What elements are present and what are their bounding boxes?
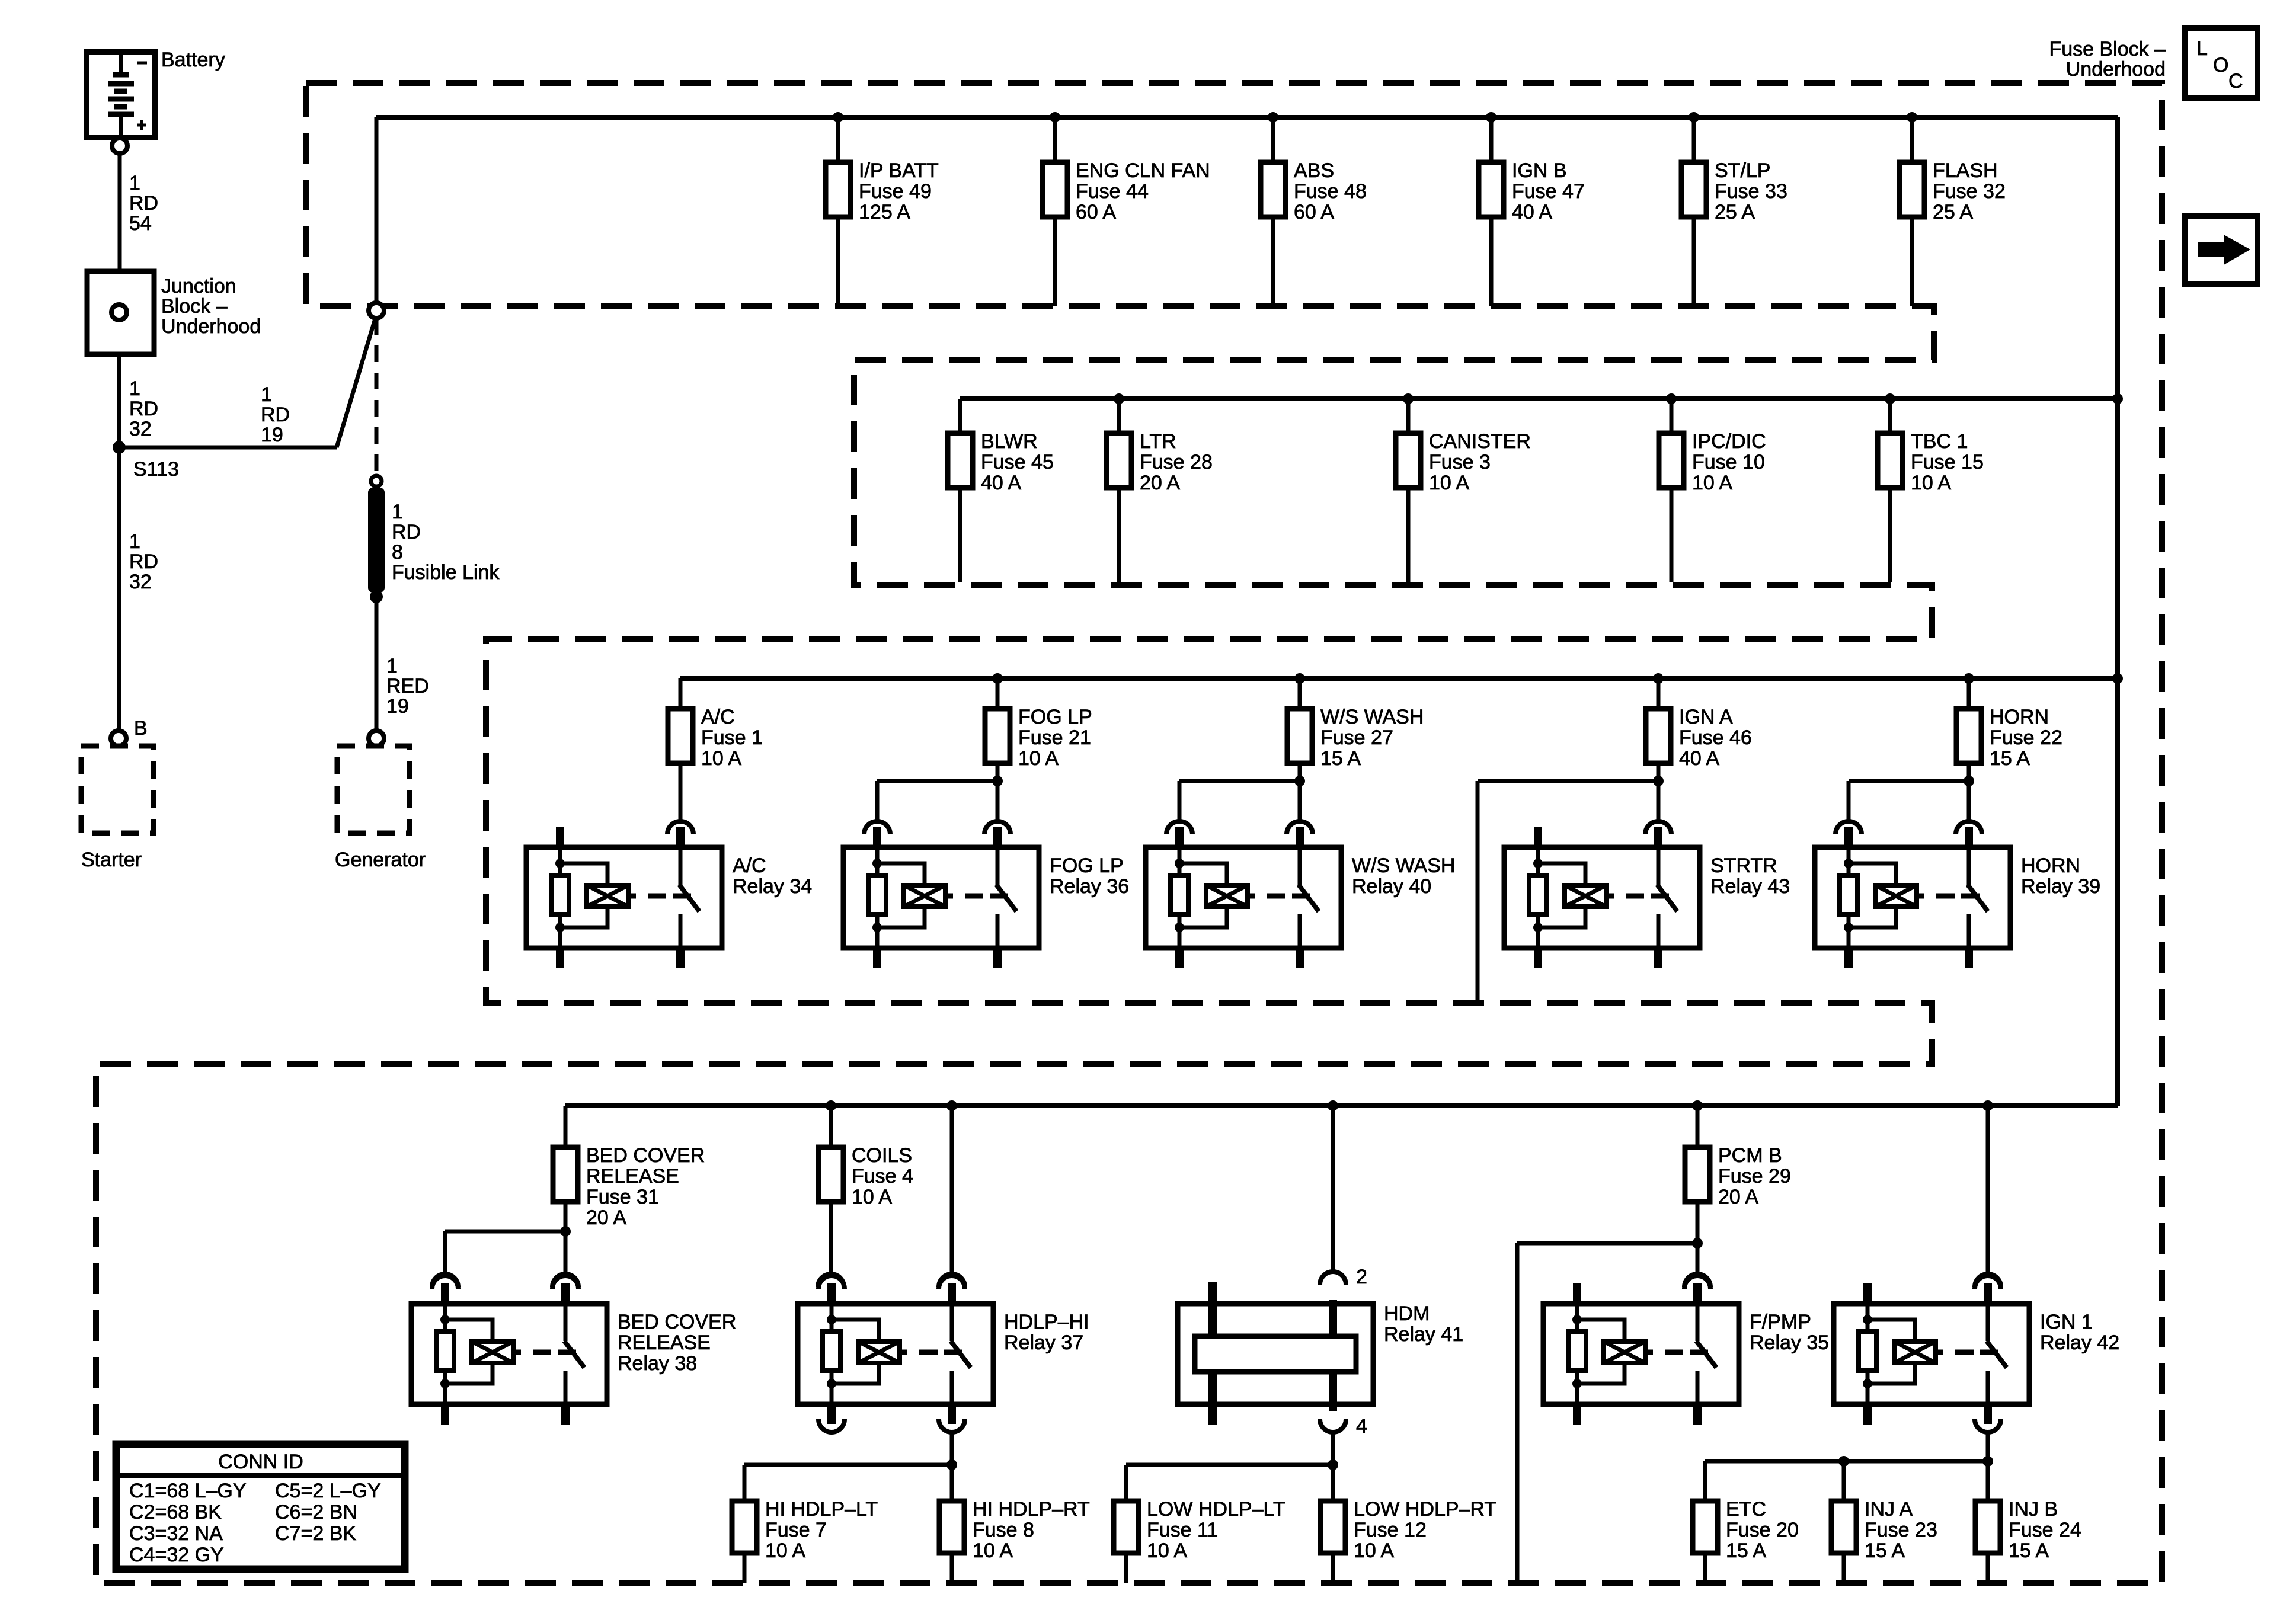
wire to fuse F8: [950, 1465, 954, 1501]
relay HDM Relay 41: [1178, 1282, 1463, 1438]
node bus2 F15: [1885, 393, 1895, 404]
svg-text:Fuse 47: Fuse 47: [1512, 180, 1585, 203]
svg-text:C2=68 BK: C2=68 BK: [129, 1501, 222, 1523]
svg-text:1: 1: [129, 172, 140, 194]
wire jog to fuse F11: [1126, 1463, 1333, 1467]
svg-text:40 A: 40 A: [981, 472, 1021, 494]
svg-text:CONN ID: CONN ID: [218, 1451, 303, 1473]
wire to fuse F24: [1986, 1461, 1990, 1501]
fuse F20: [1693, 1498, 1799, 1562]
svg-text:1: 1: [129, 530, 140, 553]
svg-text:32: 32: [129, 418, 152, 440]
svg-text:C6=2 BN: C6=2 BN: [275, 1501, 357, 1523]
svg-text:Fuse 32: Fuse 32: [1933, 180, 2006, 203]
svg-text:FOG LP: FOG LP: [1050, 854, 1124, 877]
svg-text:Fuse 11: Fuse 11: [1147, 1519, 1218, 1541]
svg-text:INJ A: INJ A: [1865, 1498, 1913, 1521]
LOC reference box: [2185, 28, 2257, 98]
fuse F32: [1900, 159, 2006, 223]
wire fuse F11 output: [1124, 1553, 1128, 1583]
node bus4 F29: [1692, 1100, 1703, 1111]
wire battery to junction block: [118, 153, 122, 271]
splice at fusible link bottom: [370, 590, 383, 603]
fuse F45: [948, 430, 1054, 494]
wire bus1 to fuse F48: [1271, 117, 1275, 162]
svg-text:Relay 43: Relay 43: [1710, 875, 1790, 898]
wire bus2 to fuse F15: [1888, 399, 1892, 433]
svg-text:Underhood: Underhood: [2066, 58, 2166, 81]
fuse F11: [1114, 1498, 1285, 1562]
svg-text:Fuse 15: Fuse 15: [1911, 451, 1984, 473]
bus row 2: [960, 396, 2118, 401]
fuse F31: [553, 1144, 705, 1229]
svg-text:BLWR: BLWR: [981, 430, 1038, 453]
wire F46 jog down to boundary: [1478, 779, 1658, 783]
svg-text:COILS: COILS: [852, 1144, 912, 1167]
svg-text:Fuse 10: Fuse 10: [1692, 451, 1765, 473]
svg-text:25 A: 25 A: [1933, 201, 1973, 223]
svg-text:Relay 37: Relay 37: [1004, 1331, 1083, 1354]
svg-text:RED: RED: [386, 675, 429, 697]
svg-text:1: 1: [392, 501, 403, 523]
wire fuse F48 output: [1271, 217, 1275, 306]
node bus1 F44: [1050, 112, 1060, 123]
node bus4 HDM: [1328, 1100, 1338, 1111]
node bus2 F3: [1403, 393, 1414, 404]
svg-text:1: 1: [386, 655, 398, 677]
svg-text:LOW HDLP–RT: LOW HDLP–RT: [1354, 1498, 1496, 1521]
node bus1 F48: [1268, 112, 1278, 123]
svg-text:10 A: 10 A: [701, 747, 741, 770]
svg-text:BED COVER: BED COVER: [586, 1144, 705, 1167]
svg-text:RD: RD: [392, 521, 421, 543]
wire relay37 switch output splice: [950, 1432, 954, 1465]
svg-text:20 A: 20 A: [586, 1206, 626, 1229]
wire bus4 to fuse F31: [564, 1106, 568, 1147]
node bus3 F22: [1964, 673, 1974, 684]
svg-text:15 A: 15 A: [1726, 1539, 1766, 1562]
svg-text:C1=68 L–GY: C1=68 L–GY: [129, 1480, 247, 1502]
wire S113 to fuse block node: [119, 446, 337, 450]
bus INJ: [1705, 1459, 1988, 1464]
svg-text:60 A: 60 A: [1294, 201, 1334, 223]
svg-text:RD: RD: [129, 398, 158, 420]
fuse F24: [1975, 1498, 2081, 1562]
wire to fuse F23: [1842, 1461, 1846, 1501]
dashed wire node to fusible link: [375, 318, 379, 474]
fuse F46: [1646, 706, 1752, 770]
fuse F1: [668, 706, 763, 770]
svg-text:Fuse 20: Fuse 20: [1726, 1519, 1799, 1541]
generator terminal: [369, 731, 384, 746]
wire to fuse F12: [1331, 1465, 1335, 1501]
node bus3-main: [2112, 673, 2123, 684]
relay HDLP-HI Relay 37: [798, 1276, 1089, 1432]
fuse F23: [1831, 1498, 1937, 1562]
svg-text:RELEASE: RELEASE: [618, 1331, 711, 1354]
node junction at boundary: [369, 303, 384, 318]
wire bus1 to fuse F47: [1489, 117, 1494, 162]
wire bus2 left drop: [958, 399, 962, 433]
splice S113: [113, 441, 126, 454]
svg-text:Block –: Block –: [161, 295, 228, 318]
relay STRTR Relay 43: [1504, 827, 1790, 968]
svg-text:1: 1: [261, 383, 272, 406]
svg-text:IGN B: IGN B: [1512, 159, 1567, 182]
svg-text:Fuse 12: Fuse 12: [1354, 1519, 1427, 1541]
svg-text:IGN A: IGN A: [1679, 706, 1733, 728]
wire bus1 to fuse F32: [1910, 117, 1914, 162]
wire bus4 to relay37 switch: [950, 1106, 954, 1274]
svg-text:C: C: [2228, 70, 2243, 92]
svg-text:Relay 34: Relay 34: [733, 875, 812, 898]
fuse F8: [939, 1498, 1090, 1562]
svg-text:Fuse 7: Fuse 7: [765, 1519, 827, 1541]
wire bus1 to fuse F33: [1692, 117, 1696, 162]
wire fuse F8 output: [950, 1553, 954, 1583]
svg-text:Fuse 8: Fuse 8: [973, 1519, 1034, 1541]
svg-text:LOW HDLP–LT: LOW HDLP–LT: [1147, 1498, 1285, 1521]
node bus4 relay37: [946, 1100, 957, 1111]
svg-text:PCM B: PCM B: [1718, 1144, 1782, 1167]
svg-text:1: 1: [129, 377, 140, 400]
wire fuse F47 output: [1489, 217, 1494, 306]
svg-text:HI HDLP–RT: HI HDLP–RT: [973, 1498, 1090, 1521]
svg-text:F/PMP: F/PMP: [1750, 1311, 1811, 1333]
svg-text:CANISTER: CANISTER: [1429, 430, 1531, 453]
node bus2-main: [2112, 393, 2123, 404]
svg-text:Fuse 49: Fuse 49: [859, 180, 932, 203]
relay BED COVER RELEASE Relay 38: [411, 1276, 736, 1425]
node bus1 F47: [1486, 112, 1496, 123]
wire F31 jog to relay38 coil: [445, 1230, 565, 1234]
svg-text:15 A: 15 A: [1320, 747, 1361, 770]
svg-text:TBC 1: TBC 1: [1911, 430, 1968, 453]
svg-text:A/C: A/C: [733, 854, 766, 877]
wire bus4 to relay42 switch: [1986, 1106, 1990, 1274]
bus row 4: [565, 1103, 2118, 1108]
wire node to bus 1: [375, 117, 379, 303]
fuse F21: [985, 706, 1092, 770]
fuse F47: [1479, 159, 1585, 223]
svg-text:32: 32: [129, 571, 152, 593]
wire bus2 to fuse F3: [1406, 399, 1411, 433]
svg-text:Fuse 21: Fuse 21: [1018, 726, 1091, 749]
svg-text:Fuse 22: Fuse 22: [1990, 726, 2062, 749]
svg-text:Fuse 33: Fuse 33: [1715, 180, 1787, 203]
svg-text:10 A: 10 A: [1354, 1539, 1394, 1562]
junction block - underhood: [87, 271, 261, 354]
svg-text:IPC/DIC: IPC/DIC: [1692, 430, 1766, 453]
wire fuse F15 output: [1888, 488, 1892, 582]
svg-text:Fuse 31: Fuse 31: [586, 1186, 659, 1208]
relay IGN 1 Relay 42: [1834, 1276, 2119, 1432]
node bus2 F10: [1666, 393, 1677, 404]
fuse F49: [826, 159, 939, 223]
wire bus1 to fuse F44: [1053, 117, 1057, 162]
svg-text:Relay 35: Relay 35: [1750, 1331, 1829, 1354]
wire bus1 to fuse F49: [836, 117, 840, 162]
wire fuse F21 splice: [996, 763, 1000, 781]
node bus1 F32: [1907, 112, 1917, 123]
svg-text:8: 8: [392, 541, 403, 564]
wire fuse F1 to relay 34: [679, 763, 683, 821]
wire bus3 to fuse F22: [1967, 678, 1971, 709]
svg-text:Fuse 4: Fuse 4: [852, 1165, 913, 1188]
svg-text:54: 54: [129, 212, 152, 235]
node bus1 F49: [833, 112, 843, 123]
wire F29 to relay35 switch: [1696, 1243, 1700, 1274]
svg-text:C5=2 L–GY: C5=2 L–GY: [275, 1480, 381, 1502]
wire bus3 to fuse F21: [996, 678, 1000, 709]
node bus2 F28: [1114, 393, 1124, 404]
svg-text:4: 4: [1356, 1415, 1367, 1438]
svg-text:10 A: 10 A: [765, 1539, 805, 1562]
svg-text:Fuse 27: Fuse 27: [1320, 726, 1393, 749]
svg-text:Fuse 45: Fuse 45: [981, 451, 1054, 473]
node INJ B: [1982, 1456, 1993, 1467]
fusible link: [368, 476, 500, 593]
fuse F10: [1659, 430, 1766, 494]
svg-text:20 A: 20 A: [1140, 472, 1180, 494]
svg-text:10 A: 10 A: [1018, 747, 1059, 770]
svg-text:Battery: Battery: [161, 49, 225, 71]
svg-text:FOG LP: FOG LP: [1018, 706, 1092, 728]
svg-text:INJ B: INJ B: [2009, 1498, 2058, 1521]
svg-text:C4=32 GY: C4=32 GY: [129, 1544, 224, 1566]
fuse F27: [1287, 706, 1424, 770]
svg-text:Junction: Junction: [161, 275, 236, 297]
relay FOG LP Relay 36: [843, 827, 1129, 968]
svg-text:Fuse 24: Fuse 24: [2009, 1519, 2081, 1541]
svg-text:19: 19: [386, 695, 409, 718]
wire fuse F28 output: [1117, 488, 1121, 582]
fuse F15: [1878, 430, 1984, 494]
svg-text:40 A: 40 A: [1679, 747, 1719, 770]
wire fuse F32 output: [1910, 217, 1914, 306]
svg-text:BED COVER: BED COVER: [618, 1311, 736, 1333]
svg-text:Underhood: Underhood: [161, 315, 261, 338]
svg-text:Starter: Starter: [81, 849, 142, 871]
wire F31 to relay38 switch: [564, 1231, 568, 1274]
svg-text:Fuse 23: Fuse 23: [1865, 1519, 1937, 1541]
fuse F44: [1043, 159, 1210, 223]
svg-text:20 A: 20 A: [1718, 1186, 1758, 1208]
svg-text:O: O: [2213, 54, 2228, 76]
svg-text:HORN: HORN: [1990, 706, 2049, 728]
fuse F28: [1107, 430, 1213, 494]
fuse F4: [818, 1144, 913, 1208]
wire fuse F12 output: [1331, 1553, 1335, 1583]
svg-text:Generator: Generator: [335, 849, 426, 871]
svg-text:25 A: 25 A: [1715, 201, 1755, 223]
svg-text:HDLP–HI: HDLP–HI: [1004, 1311, 1089, 1333]
wire fuse F23 output: [1842, 1553, 1846, 1583]
svg-text:HORN: HORN: [2021, 854, 2080, 877]
wire F21 to relay36 switch: [996, 781, 1000, 821]
fuse F22: [1956, 706, 2062, 770]
wire fuse F44 output: [1053, 217, 1057, 306]
wire F29 splice: [1696, 1202, 1700, 1243]
svg-text:S113: S113: [133, 458, 179, 481]
wire fuse F10 output: [1670, 488, 1674, 582]
svg-text:RD: RD: [129, 192, 158, 215]
wire bus2 to fuse F10: [1670, 399, 1674, 433]
wire fuse F45 output: [958, 488, 962, 582]
svg-text:HI HDLP–LT: HI HDLP–LT: [765, 1498, 878, 1521]
wire fuse F20 output: [1703, 1553, 1707, 1583]
svg-text:A/C: A/C: [701, 706, 735, 728]
svg-text:W/S WASH: W/S WASH: [1352, 854, 1455, 877]
bus row 3: [680, 676, 2118, 681]
svg-text:Relay 36: Relay 36: [1050, 875, 1129, 898]
svg-text:10 A: 10 A: [1911, 472, 1951, 494]
fuse F12: [1320, 1498, 1496, 1562]
svg-text:40 A: 40 A: [1512, 201, 1552, 223]
svg-text:C7=2 BK: C7=2 BK: [275, 1522, 356, 1545]
fuse F7: [732, 1498, 878, 1562]
svg-text:10 A: 10 A: [1692, 472, 1732, 494]
wire fuse F7 output: [743, 1553, 747, 1583]
svg-text:Relay 41: Relay 41: [1384, 1323, 1463, 1346]
svg-text:10 A: 10 A: [1429, 472, 1469, 494]
wire fuse F24 output: [1986, 1553, 1990, 1583]
continuation arrow box: [2185, 216, 2257, 284]
svg-text:10 A: 10 A: [852, 1186, 892, 1208]
fuse F48: [1261, 159, 1367, 223]
wire jog to fuse F7: [744, 1463, 952, 1467]
relay A/C Relay 34: [526, 827, 812, 968]
svg-text:Relay 42: Relay 42: [2040, 1331, 2119, 1354]
wire F31 splice: [564, 1202, 568, 1231]
node bus3 F21: [992, 673, 1003, 684]
wire fuse F46 splice: [1657, 763, 1661, 781]
svg-text:125 A: 125 A: [859, 201, 910, 223]
wire F27 jog to relay40 coil: [1179, 779, 1300, 783]
wire fuse F33 output: [1692, 217, 1696, 306]
wire bus3 to fuse F46: [1657, 678, 1661, 709]
wire fuse F22 splice: [1967, 763, 1971, 781]
svg-text:IGN 1: IGN 1: [2040, 1311, 2093, 1333]
svg-text:W/S WASH: W/S WASH: [1320, 706, 1424, 728]
svg-text:10 A: 10 A: [1147, 1539, 1187, 1562]
wire F22 jog to relay39 coil: [1849, 779, 1969, 783]
svg-text:2: 2: [1356, 1266, 1367, 1288]
starter terminal B: [111, 731, 126, 746]
bus row 1: [376, 115, 2118, 120]
fuse F29: [1685, 1144, 1791, 1208]
wire bus3 to fuse F27: [1298, 678, 1302, 709]
svg-text:Fuse 48: Fuse 48: [1294, 180, 1367, 203]
svg-text:Fuse 28: Fuse 28: [1140, 451, 1213, 473]
node bus3 F27: [1294, 673, 1305, 684]
wire fusible link to generator: [375, 597, 379, 731]
wire fuse F3 output: [1406, 488, 1411, 582]
wire S113 to starter: [117, 447, 121, 731]
svg-text:FLASH: FLASH: [1933, 159, 1998, 182]
wire F27 to relay40 switch: [1298, 781, 1302, 821]
svg-text:Relay 38: Relay 38: [618, 1352, 697, 1375]
relay F/PMP Relay 35: [1543, 1276, 1829, 1425]
fuse F33: [1681, 159, 1787, 223]
wire to fuse F20: [1703, 1461, 1707, 1501]
wire F22 to relay39 switch: [1967, 781, 1971, 821]
wire F21 jog to relay36 coil: [877, 779, 997, 783]
svg-text:C3=32 NA: C3=32 NA: [129, 1522, 223, 1545]
wire junction block to S113: [117, 354, 121, 447]
svg-text:15 A: 15 A: [2009, 1539, 2049, 1562]
relay HORN Relay 39: [1815, 827, 2100, 968]
svg-text:I/P BATT: I/P BATT: [859, 159, 939, 182]
battery positive terminal: [112, 138, 127, 153]
svg-text:15 A: 15 A: [1990, 747, 2030, 770]
wire jog down to boundary: [1515, 1243, 1520, 1583]
wire bus4 to F4: [829, 1106, 833, 1147]
wire bus3 left drop: [679, 678, 683, 709]
svg-text:B: B: [134, 717, 148, 740]
wire F46 to relay43 switch: [1657, 781, 1661, 821]
wire relay42 switch output: [1986, 1432, 1990, 1461]
svg-text:STRTR: STRTR: [1710, 854, 1777, 877]
svg-text:Fuse 1: Fuse 1: [701, 726, 763, 749]
svg-text:L: L: [2196, 37, 2208, 60]
fuse F3: [1396, 430, 1531, 494]
node INJ A: [1838, 1456, 1849, 1467]
svg-text:ABS: ABS: [1294, 159, 1334, 182]
svg-text:ETC: ETC: [1726, 1498, 1766, 1521]
svg-text:RELEASE: RELEASE: [586, 1165, 679, 1188]
svg-text:RD: RD: [129, 550, 158, 573]
svg-text:Fuse Block –: Fuse Block –: [2049, 38, 2166, 60]
node bus3 F46: [1653, 673, 1664, 684]
wire fuse F49 output: [836, 217, 840, 306]
svg-text:Relay 39: Relay 39: [2021, 875, 2100, 898]
wire F29 jog: [1517, 1241, 1697, 1246]
svg-text:HDM: HDM: [1384, 1302, 1430, 1325]
generator dashed box: [337, 746, 410, 833]
node bus4 F4: [826, 1100, 836, 1111]
svg-text:15 A: 15 A: [1865, 1539, 1905, 1562]
wire HDM pin4 output splice: [1331, 1432, 1335, 1465]
node bus4 relay42: [1982, 1100, 1993, 1111]
svg-text:10 A: 10 A: [973, 1539, 1013, 1562]
svg-text:RD: RD: [261, 404, 290, 426]
svg-text:Fuse 29: Fuse 29: [1718, 1165, 1791, 1188]
svg-text:Relay 40: Relay 40: [1352, 875, 1431, 898]
battery: [87, 49, 225, 137]
wire fuse F27 splice: [1298, 763, 1302, 781]
svg-text:19: 19: [261, 424, 283, 446]
svg-text:60 A: 60 A: [1076, 201, 1116, 223]
svg-text:Fusible Link: Fusible Link: [392, 561, 500, 584]
wire bus4 to HDM pin2: [1331, 1106, 1335, 1272]
relay W/S WASH Relay 40: [1146, 827, 1455, 968]
node bus1 F33: [1689, 112, 1699, 123]
CONN ID table: [116, 1444, 405, 1569]
svg-text:ST/LP: ST/LP: [1715, 159, 1770, 182]
main right vertical bus: [2115, 117, 2120, 1106]
svg-text:Fuse 46: Fuse 46: [1679, 726, 1752, 749]
wire bus4 to F29: [1696, 1106, 1700, 1147]
svg-text:Fuse 3: Fuse 3: [1429, 451, 1491, 473]
wire bus2 to fuse F28: [1117, 399, 1121, 433]
svg-text:ENG CLN FAN: ENG CLN FAN: [1076, 159, 1210, 182]
svg-text:Fuse 44: Fuse 44: [1076, 180, 1149, 203]
svg-text:LTR: LTR: [1140, 430, 1176, 453]
wire F4 to relay37 coil: [829, 1202, 833, 1274]
starter dashed box: [81, 746, 154, 833]
